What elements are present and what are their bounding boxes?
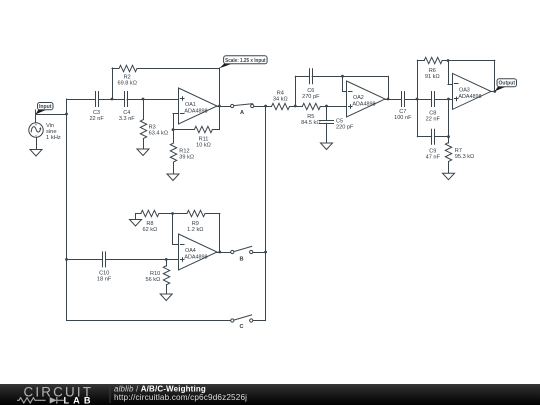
- svg-text:84.5 kΩ: 84.5 kΩ: [301, 120, 320, 126]
- svg-text:22 nF: 22 nF: [89, 116, 104, 122]
- svg-text:OA4: OA4: [185, 248, 196, 254]
- svg-text:47 nF: 47 nF: [426, 154, 441, 160]
- svg-text:LAB: LAB: [64, 395, 91, 405]
- svg-text:B: B: [239, 257, 243, 263]
- svg-text:69.8 kΩ: 69.8 kΩ: [117, 81, 136, 87]
- svg-text:OA1: OA1: [185, 102, 196, 108]
- svg-text:OA2: OA2: [353, 95, 364, 101]
- svg-text:ADA4898: ADA4898: [184, 254, 207, 260]
- svg-text:22 nF: 22 nF: [426, 116, 441, 122]
- svg-text:A: A: [240, 110, 244, 116]
- svg-text:220 pF: 220 pF: [336, 125, 354, 131]
- svg-text:95.3 kΩ: 95.3 kΩ: [455, 154, 474, 160]
- svg-text:ADA4898: ADA4898: [352, 101, 375, 107]
- svg-text:1.2 kΩ: 1.2 kΩ: [187, 227, 203, 233]
- svg-text:39 kΩ: 39 kΩ: [179, 155, 194, 161]
- svg-text:http://circuitlab.com/cp6c9d6z: http://circuitlab.com/cp6c9d6z2526j: [114, 393, 247, 402]
- svg-text:OA3: OA3: [459, 88, 470, 94]
- svg-text:Scale: 1.25 x Input: Scale: 1.25 x Input: [225, 58, 266, 64]
- svg-text:91 kΩ: 91 kΩ: [425, 74, 440, 80]
- svg-text:63.4 kΩ: 63.4 kΩ: [149, 131, 168, 137]
- svg-text:18 nF: 18 nF: [97, 276, 112, 282]
- svg-text:3.3 nF: 3.3 nF: [119, 116, 135, 122]
- svg-text:CIRCUIT: CIRCUIT: [24, 385, 94, 400]
- svg-text:1 kHz: 1 kHz: [46, 135, 61, 141]
- svg-text:62 kΩ: 62 kΩ: [143, 227, 158, 233]
- svg-text:Input: Input: [39, 104, 52, 110]
- svg-text:10 kΩ: 10 kΩ: [196, 143, 211, 149]
- svg-text:ADA4898: ADA4898: [458, 94, 481, 100]
- svg-text:ADA4898: ADA4898: [184, 108, 207, 114]
- svg-text:34 kΩ: 34 kΩ: [273, 96, 288, 102]
- svg-text:56 kΩ: 56 kΩ: [146, 277, 161, 283]
- svg-text:C: C: [239, 324, 243, 330]
- svg-text:100 nF: 100 nF: [394, 115, 412, 121]
- svg-text:270 pF: 270 pF: [302, 94, 320, 100]
- svg-text:Output: Output: [499, 81, 516, 87]
